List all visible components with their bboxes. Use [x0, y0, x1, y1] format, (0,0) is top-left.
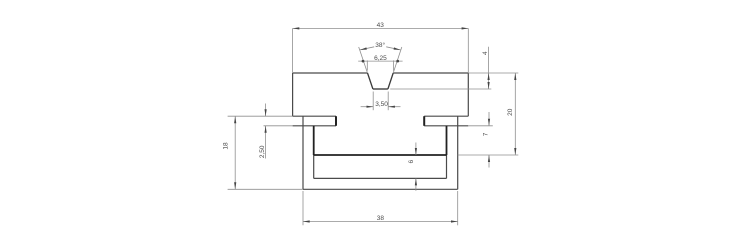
dimension 6,25 mouth extension right [392, 60, 394, 70]
dimension 6 upper shaft [415, 143, 417, 156]
svg-text:2,50: 2,50 [259, 145, 266, 158]
dimension 2,50 lower arrow [265, 126, 267, 133]
dimension 20 upper arrow [514, 73, 516, 80]
dimension 4 lower arrow [488, 82, 490, 89]
dimension 43 line [293, 27, 469, 29]
dimension 3,50 left arrow [367, 106, 374, 108]
rail left edge [292, 73, 294, 116]
angle 38 left arrow [360, 47, 367, 50]
dimension 7 lower arrow [488, 155, 490, 162]
cavity top extension to right [458, 154, 519, 156]
dimension 7 upper shaft [488, 112, 490, 126]
angle 38 extension right flank [393, 47, 402, 73]
svg-text:20: 20 [507, 108, 514, 116]
rail bottom edge right (tab top) [424, 115, 468, 117]
channel outer bottom [303, 188, 458, 190]
svg-text:4: 4 [482, 51, 489, 55]
dimension 18 lower arrow [234, 182, 236, 189]
V-groove bottom [373, 88, 388, 90]
dimension 7 lower shaft [488, 155, 490, 168]
dimension 3,50 left line [361, 106, 374, 108]
channel outer right wall [457, 116, 459, 189]
dimension 4 shaft [488, 47, 490, 89]
dimension 18 upper arrow [234, 116, 236, 123]
svg-text:3,50: 3,50 [375, 101, 388, 108]
dimension 3,50 right line [388, 106, 400, 108]
groove bottom extension to right [390, 88, 491, 90]
svg-text:6,25: 6,25 [374, 55, 387, 62]
svg-text:7: 7 [482, 132, 489, 136]
dimension 6,25 left dot [362, 60, 365, 63]
svg-text:43: 43 [377, 22, 385, 29]
tab bottom extension to left [264, 125, 293, 127]
dimension 38 line [303, 221, 458, 223]
svg-text:38: 38 [377, 215, 385, 222]
channel inner left wall upper (thick) [313, 126, 315, 155]
dimension 18 shaft [234, 116, 236, 189]
angle 38 extension left flank [359, 47, 368, 73]
dimension 6,25 line [358, 60, 402, 62]
angle 38 right leader [386, 47, 400, 50]
svg-text:38°: 38° [375, 41, 385, 49]
channel inner right wall lower [446, 155, 448, 178]
dimension 3,50 extension left [372, 92, 374, 111]
dimension 43 extension right [467, 28, 469, 73]
cavity top edge (thick) [314, 154, 447, 156]
dimension 7 upper arrow [488, 119, 490, 126]
rail right edge [467, 73, 469, 116]
left tab end edge [335, 116, 337, 126]
channel outer left wall [302, 116, 304, 189]
dimension 20 shaft [514, 73, 516, 155]
dimension 2,50 upper shaft [265, 104, 267, 117]
dimension 2,50 upper arrow [265, 109, 267, 116]
angle 38 left leader [360, 47, 374, 50]
dimension 6 lower shaft [415, 178, 417, 190]
right tab end edge [423, 116, 425, 126]
dimension 4 upper arrow [488, 73, 490, 80]
rail top extension to right [468, 72, 518, 74]
dimension 38 left arrow [303, 220, 310, 222]
V-groove right flank [388, 73, 393, 89]
dimension 6 upper arrow [415, 148, 417, 155]
dimension 2,50 lower shaft [265, 126, 267, 159]
rail top surface left segment [293, 72, 368, 74]
svg-text:18: 18 [223, 142, 230, 150]
svg-text:6: 6 [408, 160, 415, 164]
cavity bottom edge [314, 177, 447, 179]
channel inner right wall upper (thick) [446, 126, 448, 155]
dimension 43 extension left [292, 28, 294, 73]
channel inner left wall lower [313, 155, 315, 178]
dimension 43 left arrow [293, 27, 300, 29]
left tab bottom [293, 125, 336, 127]
dimension 38 extension left [302, 191, 304, 225]
right tab bottom [424, 125, 468, 127]
dimension 38 extension right [457, 191, 459, 225]
V-groove left flank [368, 73, 373, 89]
tab bottom extension to right [468, 125, 493, 127]
dimension 6 lower arrow [415, 178, 417, 185]
rail bottom edge left (tab top) [293, 115, 336, 117]
rail top surface right segment [393, 72, 468, 74]
channel bottom extension to left [228, 188, 303, 190]
dimension 6,25 mouth extension left [366, 60, 368, 70]
dimension 43 right arrow [462, 27, 469, 29]
dimension 6,25 right dot [396, 60, 399, 63]
dimension 20 lower arrow [514, 148, 516, 155]
tab top extension to left [228, 115, 293, 117]
dimension 38 right arrow [451, 220, 458, 222]
dimension 3,50 right arrow [388, 106, 395, 108]
dimension 3,50 extension right [387, 92, 389, 111]
angle 38 right arrow [394, 47, 401, 50]
